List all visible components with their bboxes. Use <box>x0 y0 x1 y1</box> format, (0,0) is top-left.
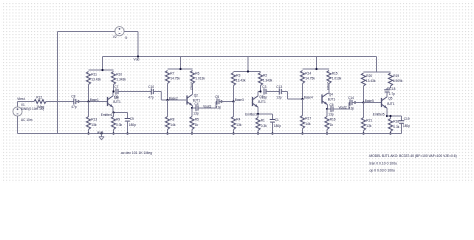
capacitor C13 <box>276 85 282 99</box>
svg-text:0.3k: 0.3k <box>393 125 399 129</box>
svg-text:1Meg: 1Meg <box>36 105 44 109</box>
wire R15 to collector <box>328 84 330 94</box>
svg-text:R19: R19 <box>393 74 399 78</box>
svg-text:0.3k: 0.3k <box>116 123 122 127</box>
svg-text:Vtest: Vtest <box>17 97 25 101</box>
node emitter2 <box>191 107 193 109</box>
svg-text:13.43k: 13.43k <box>236 79 246 83</box>
resistor R5 <box>190 108 199 134</box>
svg-text:R9: R9 <box>116 117 120 121</box>
wire C14 to base5 <box>352 102 364 104</box>
node emitter4 <box>326 108 328 110</box>
svg-text:1k: 1k <box>330 123 334 127</box>
svg-text:C9: C9 <box>130 117 134 121</box>
wire riser to C14 <box>349 103 350 110</box>
wire stage3 divider top <box>234 57 261 72</box>
junction R21 ground <box>362 132 364 134</box>
capacitor C5 <box>215 95 221 109</box>
wire Q3 emitter <box>258 107 273 114</box>
svg-text:gnd1: gnd1 <box>97 130 104 134</box>
voltage source V1 <box>13 107 22 116</box>
svg-text:C13: C13 <box>276 85 282 89</box>
junction R16 ground <box>326 132 328 134</box>
svg-text:R16: R16 <box>330 117 336 121</box>
svg-text:13p: 13p <box>216 105 222 109</box>
svg-text:R1: R1 <box>261 118 265 122</box>
wire C3 to C13 <box>266 91 279 93</box>
transistor Q3 <box>253 95 266 107</box>
svg-text:13.43k: 13.43k <box>91 78 101 82</box>
svg-text:1k: 1k <box>195 123 199 127</box>
resistor R6 <box>190 71 205 84</box>
svg-text:C18: C18 <box>390 87 396 91</box>
svg-text:R4: R4 <box>236 117 240 121</box>
wire R20 to base node <box>363 86 365 103</box>
svg-text:14.75k: 14.75k <box>305 77 315 81</box>
svg-text:13p: 13p <box>193 111 199 115</box>
capacitor C3 <box>262 85 268 99</box>
node Emitter3 <box>245 112 259 116</box>
wire riser to C5 <box>215 102 217 109</box>
wire R12 to C8 <box>46 101 74 103</box>
svg-text:C7: C7 <box>114 85 118 89</box>
svg-text:13p: 13p <box>349 106 355 110</box>
capacitor C10 <box>148 85 154 99</box>
svg-text:13p: 13p <box>276 95 282 99</box>
wire ground bus <box>18 133 402 135</box>
wire Vdd bus top <box>103 56 377 58</box>
svg-text:180p: 180p <box>129 123 136 127</box>
resistor R7 <box>165 71 180 84</box>
svg-text:1.013k: 1.013k <box>332 77 342 81</box>
resistor R10 <box>111 72 126 85</box>
svg-text:R14: R14 <box>305 71 311 75</box>
capacitor C9 <box>125 113 137 134</box>
svg-text:R6: R6 <box>195 71 199 75</box>
resistor R12 <box>34 96 46 109</box>
wire C8 to base1 <box>76 101 107 103</box>
wire Q1 collector <box>112 92 114 96</box>
node Base2 <box>166 96 178 101</box>
wire stage2 divider top <box>168 57 193 70</box>
capacitor C19 <box>399 116 411 134</box>
svg-text:.MODEL BJT1 AKO: BC337-40 (BF=: .MODEL BJT1 AKO: BC337-40 (BF=100 VAF=10… <box>369 154 457 158</box>
svg-text:Emitter1: Emitter1 <box>101 113 113 117</box>
svg-text:Base3: Base3 <box>235 98 244 102</box>
svg-text:47p: 47p <box>148 95 154 99</box>
junction R18 ground <box>389 132 391 134</box>
wire Vdd bus right drop <box>376 57 378 73</box>
wire Q1 emitter <box>113 107 128 112</box>
svg-text:AC 10m: AC 10m <box>21 118 33 122</box>
svg-text:R3: R3 <box>236 73 240 77</box>
wire emitter5 bus <box>387 115 402 117</box>
svg-text:Emitter5: Emitter5 <box>373 112 385 116</box>
svg-text:5: 5 <box>125 36 127 40</box>
wire supply left riser <box>58 31 116 33</box>
wire C7 to C10 <box>118 91 151 93</box>
svg-text:C3: C3 <box>262 85 266 89</box>
junction R9 ground <box>112 132 114 134</box>
transistor Q1 <box>108 95 121 107</box>
svg-text:Vout2: Vout2 <box>339 105 347 109</box>
svg-text:14k: 14k <box>305 122 311 126</box>
capacitor C1 <box>270 114 282 134</box>
svg-text:C10: C10 <box>148 85 154 89</box>
svg-text:R2: R2 <box>263 73 267 77</box>
svg-text:.op 0 0.03 0 100u: .op 0 0.03 0 100u <box>369 169 396 173</box>
wire R14 to base node <box>302 84 304 100</box>
svg-text:R18: R18 <box>393 119 399 123</box>
resistor R17 <box>300 99 311 134</box>
wire C18 to collector <box>386 92 388 97</box>
svg-text:C19: C19 <box>404 117 410 121</box>
svg-text:0.3k: 0.3k <box>261 124 267 128</box>
node Base4 <box>301 95 313 100</box>
svg-text:R21: R21 <box>366 118 372 122</box>
resistor R13 <box>86 102 97 134</box>
resistor R21 <box>361 103 372 134</box>
wire source bottom to ground bus <box>18 116 58 133</box>
svg-text:R10: R10 <box>116 72 122 76</box>
ground symbol <box>97 130 104 140</box>
capacitor C6 <box>327 103 334 116</box>
svg-text:R12: R12 <box>36 96 42 100</box>
svg-text:13k: 13k <box>91 123 97 127</box>
svg-text:.tran 0 0.10 0 100u: .tran 0 0.10 0 100u <box>369 161 398 165</box>
wire R3 to base node <box>233 86 235 102</box>
wire R10 to collector <box>113 85 115 92</box>
svg-text:R17: R17 <box>305 116 311 120</box>
svg-text:R11: R11 <box>91 72 97 76</box>
svg-text:C8: C8 <box>71 95 75 99</box>
svg-text:R13: R13 <box>91 117 97 121</box>
svg-text:13p: 13p <box>328 112 334 116</box>
resistor R18 <box>388 116 399 134</box>
svg-text:Emitter3: Emitter3 <box>245 112 257 116</box>
capacitor C7 <box>114 85 120 99</box>
wire R2 to collector <box>260 86 262 92</box>
wire riser to C5 <box>216 102 217 109</box>
svg-text:C6: C6 <box>330 103 334 107</box>
resistor R4 <box>231 102 241 134</box>
wire source top <box>17 102 19 107</box>
svg-text:Vdd: Vdd <box>134 57 140 61</box>
wire C13 to base4 <box>281 92 302 100</box>
junction stage4 top <box>315 68 317 70</box>
node Emitter5 <box>373 112 388 117</box>
junction stage2 top <box>179 68 181 70</box>
wire Q3 collector <box>257 92 259 96</box>
wire R6 to collector <box>192 84 194 95</box>
junction R1 ground <box>257 132 259 134</box>
svg-text:BJT1: BJT1 <box>328 98 336 102</box>
svg-text:1.7p: 1.7p <box>389 92 395 96</box>
wire stage1 divider top <box>89 57 114 71</box>
wire R19 to C18 <box>387 86 391 90</box>
capacitor C18 <box>384 87 395 96</box>
transistor Q5 <box>382 97 395 109</box>
svg-text:Base1: Base1 <box>90 98 99 102</box>
resistor R3 <box>231 73 245 86</box>
svg-text:6.909k: 6.909k <box>393 79 403 83</box>
node collector3 <box>259 90 261 92</box>
voltage source V2 <box>115 27 124 36</box>
svg-text:R20: R20 <box>366 74 372 78</box>
node Emitter1 <box>101 111 115 117</box>
junction R5 ground <box>191 132 193 134</box>
resistor R15 <box>327 71 342 84</box>
svg-text:R15: R15 <box>332 71 338 75</box>
svg-text:Q4: Q4 <box>329 92 333 96</box>
svg-text:BJT1: BJT1 <box>258 100 266 104</box>
svg-text:Vmid4: Vmid4 <box>326 82 330 91</box>
svg-text:13p: 13p <box>262 95 268 99</box>
svg-text:1.343k: 1.343k <box>116 78 126 82</box>
svg-text:Q5: Q5 <box>388 97 392 101</box>
node Base1 <box>87 98 99 103</box>
wire C10 to base2 <box>153 92 186 101</box>
svg-text:14.75k: 14.75k <box>170 77 180 81</box>
svg-text:BJT1: BJT1 <box>113 100 121 104</box>
svg-text:.ac dec 101 1K 1Meg: .ac dec 101 1K 1Meg <box>120 151 152 155</box>
wire stage4 divider top <box>303 57 330 70</box>
svg-text:13.43k: 13.43k <box>366 79 376 83</box>
svg-text:180p: 180p <box>403 124 410 128</box>
resistor R20 <box>361 73 375 86</box>
wire Q5 emitter <box>386 108 388 116</box>
resistor R1 <box>256 114 267 134</box>
junction R17 ground <box>301 132 303 134</box>
wire Q2 emitter <box>192 106 194 108</box>
svg-text:BJT1: BJT1 <box>387 102 395 106</box>
svg-text:Vmid2: Vmid2 <box>190 82 194 91</box>
resistor R19 <box>388 73 402 86</box>
wire Q4 emitter <box>327 105 329 109</box>
svg-text:R5: R5 <box>195 117 199 121</box>
svg-text:13k: 13k <box>236 123 242 127</box>
svg-text:180p: 180p <box>274 124 281 128</box>
svg-text:47p: 47p <box>71 105 77 109</box>
resistor R14 <box>300 71 315 84</box>
junction stage1 top <box>101 69 103 71</box>
wire R11 to base node <box>88 85 90 102</box>
svg-text:Base2: Base2 <box>169 96 178 100</box>
svg-text:R8: R8 <box>170 117 174 121</box>
capacitor C8 <box>71 95 77 109</box>
wire R7 to base node <box>167 84 169 101</box>
svg-text:Base4: Base4 <box>304 95 313 99</box>
wire stage5 divider top <box>364 57 391 73</box>
wire ground left drop <box>57 32 59 134</box>
resistor R8 <box>165 100 175 134</box>
resistor R2 <box>258 73 272 86</box>
resistor R9 <box>111 113 122 134</box>
node collector1 <box>112 90 114 92</box>
junction stage3 top <box>247 70 249 72</box>
svg-text:C1: C1 <box>275 118 279 122</box>
wire base5 to Q5 <box>364 102 382 104</box>
node after C5 <box>220 100 222 102</box>
svg-text:Q2: Q2 <box>194 93 198 97</box>
node after C14 <box>354 101 356 103</box>
svg-text:V2: V2 <box>113 35 117 39</box>
resistor R16 <box>325 109 336 134</box>
wire Vtest to R12 <box>18 101 35 103</box>
transistor Q4 <box>322 92 335 104</box>
wire Vout1 <box>198 107 216 109</box>
wire C5 to base3 <box>219 101 234 103</box>
resistor R11 <box>86 72 101 85</box>
node Vdd <box>134 55 140 61</box>
capacitor C14 <box>348 96 354 110</box>
wire V2 to bus <box>124 32 138 57</box>
svg-text:R7: R7 <box>170 71 174 75</box>
svg-text:1.343k: 1.343k <box>263 79 273 83</box>
node Base3 <box>232 98 244 103</box>
svg-text:Vout1: Vout1 <box>203 104 211 108</box>
junction C1 ground <box>271 132 273 134</box>
junction C9 ground <box>126 132 128 134</box>
svg-text:1.013k: 1.013k <box>195 77 205 81</box>
transistor Q2 <box>187 93 200 105</box>
svg-text:C4: C4 <box>195 102 199 106</box>
junction R4 ground <box>232 132 234 134</box>
node after C8 <box>77 100 79 102</box>
svg-text:14k: 14k <box>170 123 176 127</box>
junction R18 top <box>389 115 391 117</box>
svg-text:C14: C14 <box>348 96 354 100</box>
capacitor C4 <box>192 102 199 115</box>
junction R13 ground <box>87 132 89 134</box>
svg-text:13p: 13p <box>114 95 120 99</box>
node Base5 <box>362 99 374 104</box>
svg-text:13k: 13k <box>366 124 372 128</box>
svg-text:C5: C5 <box>215 95 219 99</box>
junction R8 ground <box>166 132 168 134</box>
wire Vout2 <box>333 108 349 110</box>
